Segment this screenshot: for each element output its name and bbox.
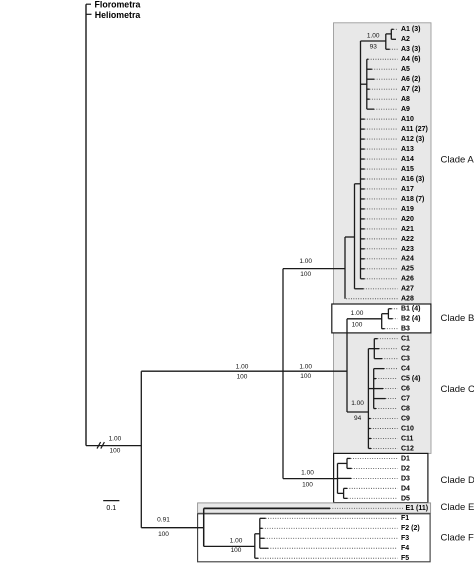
tip F1 branch <box>260 517 266 519</box>
svg-text:Clade A: Clade A <box>441 155 474 166</box>
tip D2 branch <box>347 467 352 469</box>
A1/A2 cherry vertical <box>390 29 392 39</box>
vertical: E/F split <box>203 508 205 546</box>
tip A16 branch <box>361 178 365 180</box>
connector D1/D2 cherry <box>338 462 348 464</box>
tip A27 branch <box>355 288 364 290</box>
svg-text:C12: C12 <box>401 445 414 452</box>
svg-text:C8: C8 <box>401 405 410 412</box>
tip A24 branch <box>361 258 365 260</box>
svg-text:B2 (4): B2 (4) <box>401 316 420 323</box>
white box clade B <box>332 304 431 333</box>
svg-text:A25: A25 <box>401 266 414 273</box>
tip B1 branch <box>388 308 391 310</box>
connector to A1-A27 subclade <box>345 236 355 238</box>
svg-text:A10: A10 <box>401 116 414 123</box>
tip C1 branch <box>374 338 377 340</box>
svg-text:A9: A9 <box>401 106 410 113</box>
A1-A27 subclade vertical <box>354 184 356 289</box>
A4-A9 vertical <box>366 59 368 109</box>
tip A17 branch <box>361 188 365 190</box>
node vertical: (A-D) vs (E-F) split <box>140 371 142 528</box>
svg-text:D1: D1 <box>401 455 410 462</box>
svg-text:A2: A2 <box>401 36 410 43</box>
svg-text:0.1: 0.1 <box>106 505 116 512</box>
svg-text:E1 (11): E1 (11) <box>406 505 429 512</box>
svg-text:Clade E: Clade E <box>441 502 474 513</box>
tip C5 branch <box>374 378 376 380</box>
tip B3 branch <box>382 328 385 330</box>
white box clade F <box>198 514 431 562</box>
svg-text:Clade C: Clade C <box>441 384 474 395</box>
svg-text:94: 94 <box>354 415 362 422</box>
svg-text:B3: B3 <box>401 326 410 333</box>
svg-text:A4 (6): A4 (6) <box>401 56 420 63</box>
svg-text:F2 (2): F2 (2) <box>401 525 420 532</box>
svg-text:F5: F5 <box>401 555 409 562</box>
tip A21 branch <box>361 228 365 230</box>
tip A23 branch <box>361 248 365 250</box>
connector B1/B2 cherry <box>382 313 389 315</box>
connector to C1-C3 subclade <box>368 348 374 350</box>
svg-text:1.00: 1.00 <box>236 364 249 371</box>
svg-text:A11 (27): A11 (27) <box>401 126 428 133</box>
svg-text:F3: F3 <box>401 535 409 542</box>
svg-text:A16 (3): A16 (3) <box>401 176 424 183</box>
branch to clade A-D ancestor <box>141 370 283 372</box>
tip A22 branch <box>361 238 365 240</box>
tip A26 branch <box>361 278 365 280</box>
clade A root vertical <box>344 237 346 299</box>
svg-text:A15: A15 <box>401 166 414 173</box>
vertical: clades A-D ancestor <box>282 269 284 479</box>
tip C8 branch <box>374 408 376 410</box>
connector D4/D5 cherry <box>338 492 344 494</box>
tip C3 branch <box>374 358 382 360</box>
tip C7 branch <box>374 398 386 400</box>
connector to A1-A26 backbone <box>355 183 361 185</box>
svg-text:A24: A24 <box>401 256 414 263</box>
svg-text:C11: C11 <box>401 435 414 442</box>
tip D5 branch <box>344 497 348 499</box>
svg-text:1.00: 1.00 <box>299 258 312 265</box>
svg-text:A12 (3): A12 (3) <box>401 136 424 143</box>
svg-text:A7 (2): A7 (2) <box>401 86 420 93</box>
svg-text:A27: A27 <box>401 286 414 293</box>
tip A19 branch <box>361 208 365 210</box>
svg-text:100: 100 <box>231 547 242 554</box>
svg-text:D5: D5 <box>401 495 410 502</box>
svg-text:100: 100 <box>352 321 363 328</box>
clade D backbone vertical <box>337 463 339 493</box>
svg-text:C2: C2 <box>401 346 410 353</box>
branch length break symbol // <box>97 442 101 449</box>
svg-text:C4: C4 <box>401 366 410 373</box>
tip A10 branch <box>361 118 365 120</box>
tip A13 branch <box>361 148 365 150</box>
branch to clades B+C ancestor <box>283 370 347 372</box>
svg-text:C6: C6 <box>401 385 410 392</box>
svg-text:A22: A22 <box>401 236 414 243</box>
svg-text:C7: C7 <box>401 395 410 402</box>
tip C12 branch <box>368 447 371 449</box>
tip C9 branch <box>368 418 370 420</box>
svg-text:A13: A13 <box>401 146 414 153</box>
tip A25 branch <box>361 268 365 270</box>
tip C4 branch <box>374 368 384 370</box>
svg-text:A18 (7): A18 (7) <box>401 196 424 203</box>
svg-text:B1 (4): B1 (4) <box>401 306 420 313</box>
svg-text:Clade D: Clade D <box>441 475 474 486</box>
branch Florometra <box>86 3 91 5</box>
branch Heliometra <box>86 13 92 15</box>
svg-text:A3 (3): A3 (3) <box>401 46 420 53</box>
svg-text:A1 (3): A1 (3) <box>401 26 420 33</box>
svg-text:D4: D4 <box>401 485 410 492</box>
svg-text:A5: A5 <box>401 66 410 73</box>
svg-text:A26: A26 <box>401 276 414 283</box>
svg-text:Clade F: Clade F <box>441 532 474 543</box>
tip D4 branch <box>344 487 347 489</box>
svg-text:1.00: 1.00 <box>351 310 364 317</box>
branch to A1-A3 subclade <box>361 40 386 42</box>
svg-text:93: 93 <box>370 43 378 50</box>
white box clade D <box>334 453 428 502</box>
shaded box clades A-C <box>334 23 432 454</box>
tip A3 branch <box>386 48 390 50</box>
tip A4 branch <box>367 58 369 60</box>
branch to clades E+F ancestor <box>141 527 203 529</box>
tip A20 branch <box>361 218 365 220</box>
svg-text:100: 100 <box>109 447 120 454</box>
tip A8 branch <box>367 98 370 100</box>
C4-C8 vertical <box>373 369 375 409</box>
svg-text:A8: A8 <box>401 96 410 103</box>
svg-text:C10: C10 <box>401 425 414 432</box>
clade C backbone vertical <box>367 349 369 449</box>
connector A1/A2 cherry <box>386 33 392 35</box>
tip A11 branch <box>361 128 365 130</box>
svg-text:A6 (2): A6 (2) <box>401 76 420 83</box>
svg-text:100: 100 <box>302 481 313 488</box>
svg-text:1.00: 1.00 <box>301 470 314 477</box>
svg-text:D3: D3 <box>401 475 410 482</box>
svg-text:1.00: 1.00 <box>351 400 364 407</box>
svg-text:100: 100 <box>237 374 248 381</box>
tip A7 branch <box>367 88 370 90</box>
svg-text:Florometra: Florometra <box>95 0 141 10</box>
tip A9 branch <box>367 108 374 110</box>
F1-F4 vertical <box>259 518 261 548</box>
svg-text:Clade B: Clade B <box>441 313 474 324</box>
tip A2 branch <box>391 38 396 40</box>
svg-text:A17: A17 <box>401 186 414 193</box>
svg-text:A23: A23 <box>401 246 414 253</box>
branch to clade C <box>347 411 368 413</box>
branch to clade A <box>283 268 345 270</box>
svg-text:D2: D2 <box>401 465 410 472</box>
branch to clade B <box>347 318 382 320</box>
vertical: clades B/C ancestor <box>346 319 348 412</box>
connector F1-F4 subclade <box>255 533 260 535</box>
branch to clade D <box>283 478 338 480</box>
tip B2 branch <box>388 318 392 320</box>
clade F outer vertical <box>254 534 256 558</box>
C1-C3 vertical <box>373 339 375 359</box>
tip E1 long branch <box>204 507 330 509</box>
B1/B2 cherry vertical <box>387 309 389 319</box>
tip A1 branch <box>391 28 393 30</box>
svg-text:F1: F1 <box>401 515 409 522</box>
svg-text:1.00: 1.00 <box>367 33 380 40</box>
svg-text:1.00: 1.00 <box>299 363 312 370</box>
connector to C4-C8 subclade <box>368 388 373 390</box>
A1-A3 vertical <box>385 34 387 49</box>
tip A15 branch <box>361 168 365 170</box>
branch to clade F <box>204 545 255 547</box>
root vertical (outgroup node) <box>85 4 87 445</box>
root horizontal branch <box>86 445 141 447</box>
tip A12 branch <box>361 138 365 140</box>
svg-text:0.91: 0.91 <box>157 517 170 524</box>
svg-text:C1: C1 <box>401 336 410 343</box>
svg-text:A20: A20 <box>401 216 414 223</box>
svg-text:1.00: 1.00 <box>109 436 122 443</box>
svg-text:C9: C9 <box>401 415 410 422</box>
svg-text:100: 100 <box>158 531 169 538</box>
tip A28 leader <box>346 298 397 300</box>
tip A14 branch <box>361 158 365 160</box>
svg-text:A14: A14 <box>401 156 414 163</box>
tip C11 branch <box>368 437 371 439</box>
tip C10 branch <box>368 428 370 430</box>
tip C6 branch <box>374 388 383 390</box>
tip D3 branch <box>338 477 352 479</box>
svg-text:F4: F4 <box>401 545 409 552</box>
A1-A26 backbone vertical <box>360 41 362 279</box>
D1/D2 cherry vertical <box>346 458 348 468</box>
svg-text:A28: A28 <box>401 296 414 303</box>
svg-text:1.00: 1.00 <box>230 538 243 545</box>
tip F3 branch <box>260 537 265 539</box>
svg-text:100: 100 <box>300 373 311 380</box>
D4/D5 cherry vertical <box>343 488 345 498</box>
branch to A4-A9 subclade <box>361 83 367 85</box>
tip A5 branch <box>367 68 372 70</box>
clade B vertical <box>381 314 383 329</box>
tip F5 branch <box>255 557 258 559</box>
svg-text:A21: A21 <box>401 226 414 233</box>
svg-text:Heliometra: Heliometra <box>95 10 141 20</box>
scale bar 0.1 substitutions <box>103 500 119 502</box>
tip A6 branch <box>367 78 375 80</box>
svg-text:100: 100 <box>300 271 311 278</box>
tip C2 branch <box>374 348 379 350</box>
svg-text:C5 (4): C5 (4) <box>401 376 420 383</box>
tip F2 branch <box>260 527 263 529</box>
shaded box clade E <box>198 503 431 513</box>
svg-text:C3: C3 <box>401 356 410 363</box>
tip D1 branch <box>347 457 351 459</box>
tip F4 branch <box>260 547 268 549</box>
svg-text:A19: A19 <box>401 206 414 213</box>
tip A18 branch <box>361 198 365 200</box>
